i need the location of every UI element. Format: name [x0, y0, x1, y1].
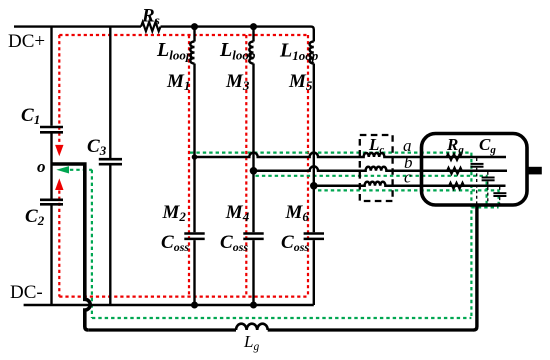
green dashed bottom return path [92, 317, 472, 319]
wire C3 branch upper [109, 27, 111, 158]
motor frame box [422, 134, 528, 206]
wire phase c [314, 185, 360, 188]
parasitic capacitor Cg phase b dashed lead [487, 172, 489, 205]
capacitor C3 [99, 159, 122, 164]
green dashed path along phase a [190, 152, 471, 154]
wire phase b into motor [393, 170, 507, 173]
inductor Lc phase b [361, 167, 393, 171]
wire leg 2 mid [252, 64, 254, 233]
green dashed CM path from node o [64, 169, 92, 171]
green dashed path along phase b [256, 176, 487, 208]
wire DC- rail [24, 304, 314, 306]
resistor Rg phase c [449, 183, 464, 189]
wire leg 1 upper [193, 27, 195, 42]
red dashed switching loop bottom segment [59, 296, 308, 298]
wire C1 C2 branch upper [50, 27, 52, 126]
red dashed vertical left of leg 2 [245, 35, 247, 297]
capacitor Coss leg 3 [304, 234, 324, 239]
wire leg 2 lower [252, 240, 254, 305]
red arrow down into node o [55, 145, 63, 156]
capacitor Coss leg 2 [243, 234, 263, 239]
motor shaft stub [527, 167, 542, 175]
junction dot top rail leg 1 [191, 23, 198, 30]
inductor Lg [236, 324, 268, 330]
wire C1 to node o [50, 134, 52, 199]
capacitor Cg phase b plates [482, 178, 495, 181]
junction dot DC- rail leg 2 [250, 302, 257, 309]
wire leg 3 mid [313, 64, 315, 233]
green arrow into node o [56, 166, 69, 173]
inductor Lloop leg 1 [190, 42, 194, 64]
red dashed vertical left of leg 1 [188, 35, 190, 297]
svg-text:o: o [37, 157, 46, 176]
green dashed path along phase c [318, 190, 499, 207]
junction dot phase c leg 3 [310, 182, 318, 190]
inductor Lc phase c [360, 182, 393, 186]
resistor Rg phase a [447, 154, 462, 160]
wire phase c into motor [393, 185, 506, 188]
green dashed vertical beside node o branch [91, 170, 93, 318]
parasitic capacitor Cg phase a dashed lead [476, 158, 478, 205]
wire phase a into motor [393, 156, 506, 159]
green dashed right vertical to motor [470, 153, 472, 318]
capacitor C1 [40, 127, 63, 132]
wire C3 branch lower [109, 165, 111, 305]
inductor Lc phase a [359, 153, 393, 157]
red arrow up into node o [55, 178, 63, 190]
capacitor Coss leg 1 [184, 234, 204, 239]
parasitic capacitor Cg phase c dashed lead [499, 187, 501, 205]
wire DC+ top rail with resistor gap [14, 25, 311, 27]
wire C2 to DC- rail [50, 206, 52, 306]
capacitor Cg phase c plates [493, 193, 506, 196]
wire leg 3 lower [313, 240, 315, 305]
svg-text:c: c [404, 168, 412, 187]
wire leg 2 upper [252, 27, 254, 42]
svg-text:DC-: DC- [10, 282, 43, 303]
junction dot phase a leg 1 [192, 154, 198, 160]
red dashed switching loop top segment [59, 34, 308, 36]
inductor Lloop leg 3 [310, 42, 314, 64]
wire leg 1 mid (M1 M2 channel) [193, 64, 195, 233]
green dashed junction below motor box [471, 206, 498, 208]
dashed box Lc common mode choke [360, 135, 393, 201]
wire phase b with hop over leg 3 [254, 166, 362, 170]
ground wire bottom with inductor gap [88, 328, 473, 331]
wire leg 3 from top rail corner [311, 27, 314, 42]
capacitor Cg phase a plates [471, 164, 484, 167]
junction dot top rail leg 2 [250, 23, 257, 30]
wire phase a with hops over legs 2 and 3 [195, 153, 360, 157]
junction dot phase b leg 2 [250, 167, 258, 175]
ground wire right vertical to motor frame [474, 205, 477, 330]
resistor Rg phase b [447, 168, 462, 174]
wire leg 1 lower [193, 240, 195, 305]
red dashed left vertical through C1 C2 [58, 35, 60, 297]
capacitor C2 [40, 200, 63, 205]
resistor Rs [141, 22, 160, 31]
junction dot DC- rail leg 1 [191, 302, 198, 309]
node o thick branch wire with hop over DC- rail [52, 164, 91, 330]
svg-text:DC+: DC+ [8, 31, 45, 52]
red dashed vertical left of leg 3 [307, 35, 309, 297]
inductor Lloop leg 2 [249, 42, 253, 64]
